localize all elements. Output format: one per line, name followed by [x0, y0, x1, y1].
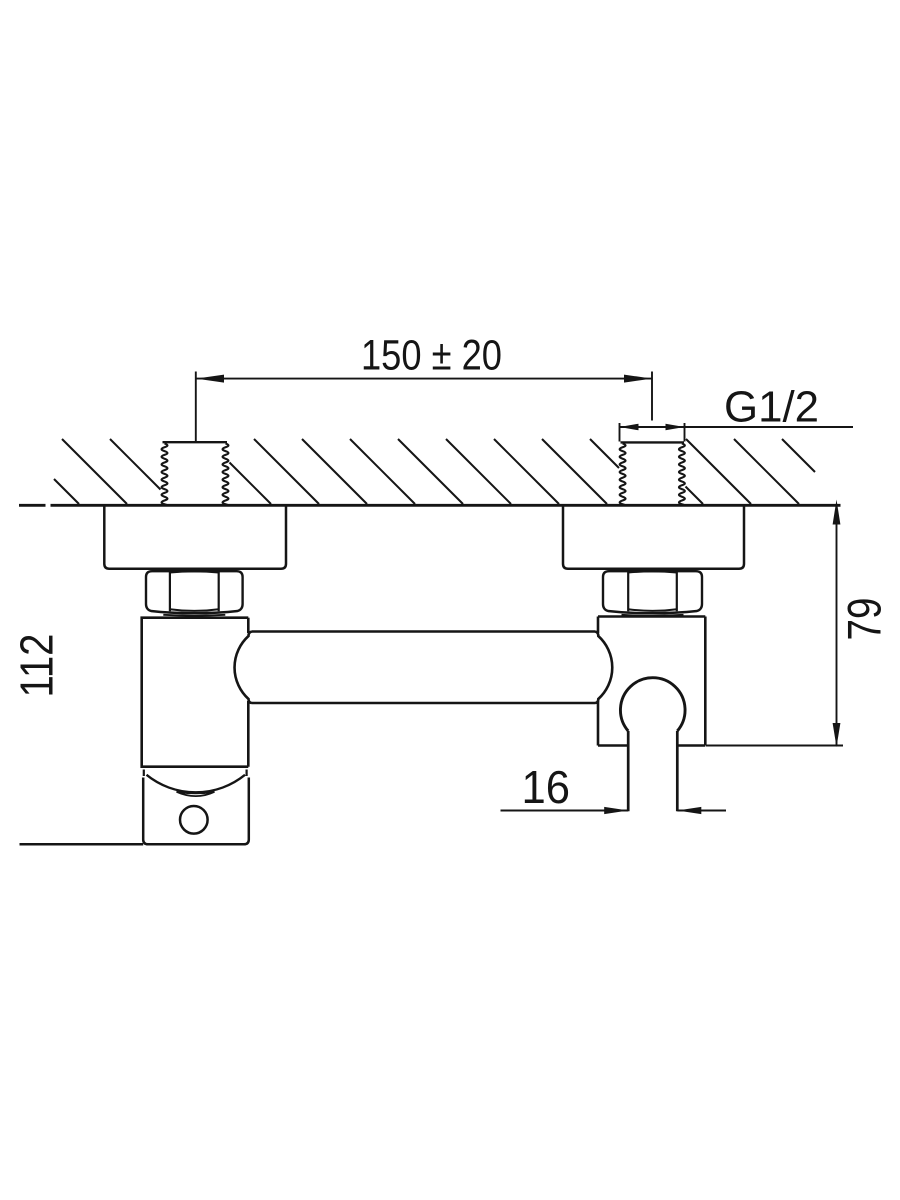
outlet pipe right wall [676, 731, 679, 811]
G1/2 leader and arrows [620, 423, 854, 442]
svg-text:G1/2: G1/2 [724, 383, 819, 432]
left hex nut [146, 571, 243, 615]
aerator dome [144, 770, 247, 797]
svg-text:79: 79 [838, 598, 891, 641]
wall surface line [19, 504, 46, 507]
right hex nut [603, 571, 702, 615]
left threaded inlet pipe [162, 442, 229, 505]
right threaded inlet pipe [620, 442, 685, 505]
connecting bar bottom edge [252, 702, 595, 705]
connecting bar top edge [252, 630, 595, 633]
outlet pipe left wall [627, 731, 630, 811]
svg-text:16: 16 [522, 761, 571, 813]
dimension 79 line [706, 500, 843, 748]
ground reference line [20, 843, 144, 846]
bracket screw hole [180, 806, 208, 834]
dimension 16 line [501, 807, 727, 814]
lower bracket [143, 778, 249, 845]
right ball joint fillet [595, 632, 612, 704]
right escutcheon flange [563, 506, 744, 569]
svg-text:112: 112 [11, 634, 63, 698]
wall hatch [54, 479, 79, 504]
left valve body [142, 618, 249, 767]
right valve body [598, 617, 705, 746]
left escutcheon flange [104, 506, 286, 569]
svg-text:150 ± 20: 150 ± 20 [361, 332, 502, 380]
left ball joint fillet [235, 632, 252, 704]
dimension 150 line [196, 372, 652, 442]
outlet port circle [620, 678, 685, 731]
